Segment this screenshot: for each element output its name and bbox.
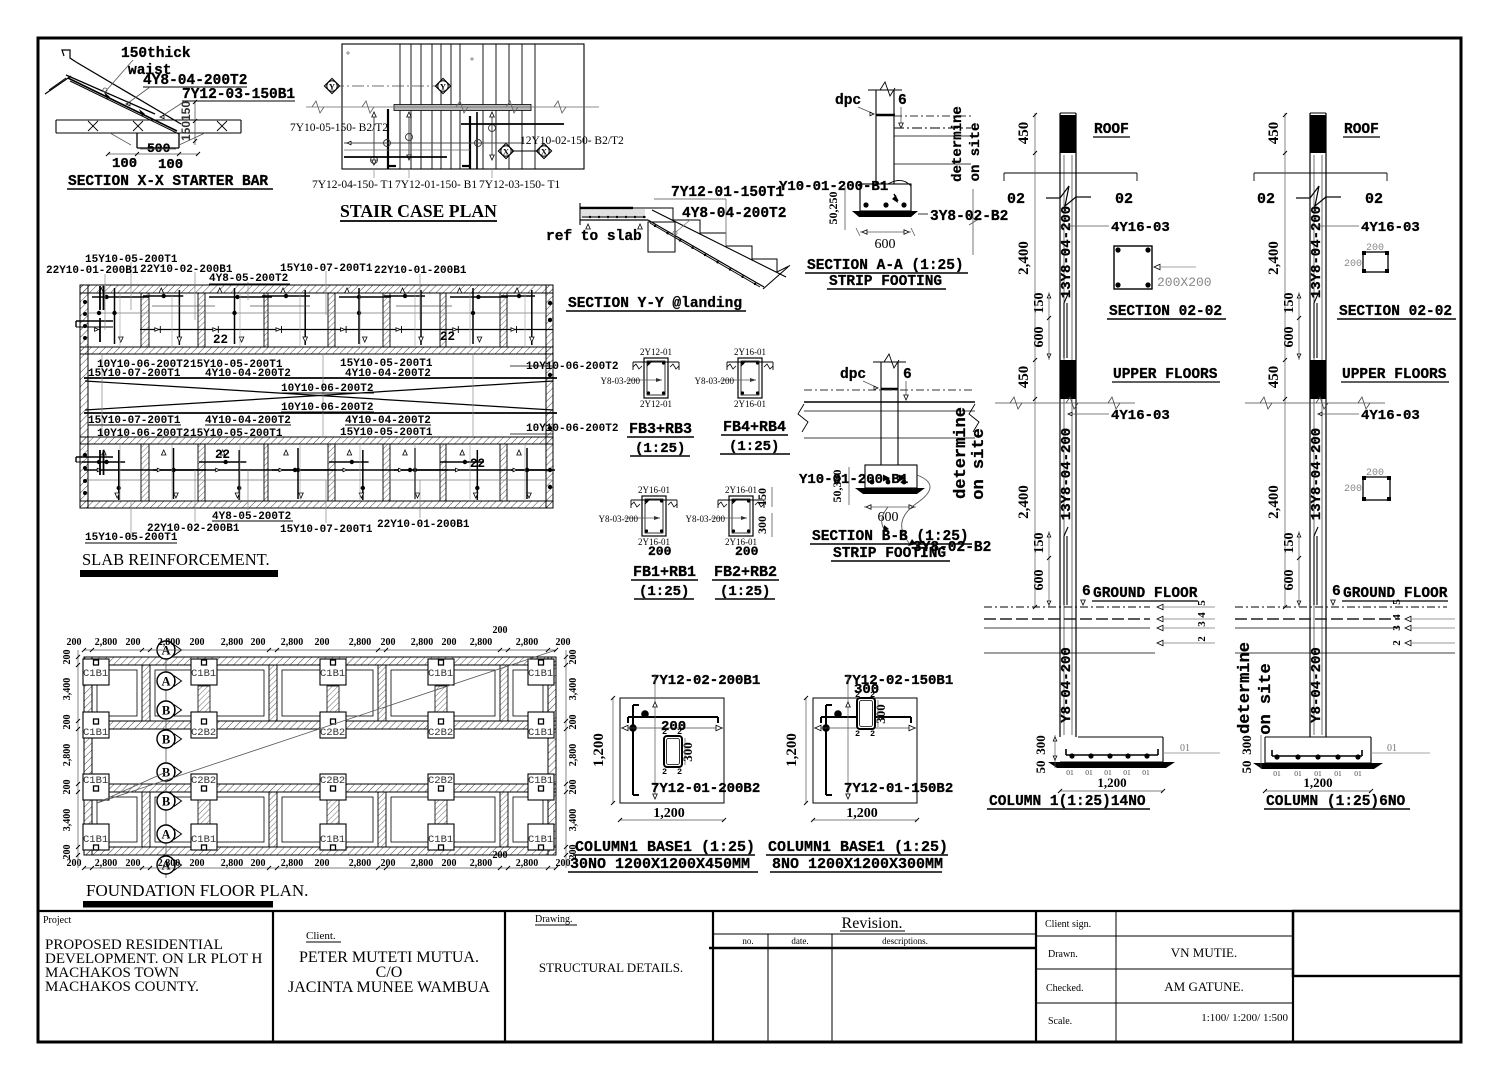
grid marker B [157,792,175,810]
column2 base dims 300/50 [1260,735,1262,769]
svg-text:2,800: 2,800 [158,637,181,648]
extra thin vertical grid lines lower row [119,444,121,501]
column1 blinding [1048,762,1175,768]
svg-text:2Y16-01: 2Y16-01 [725,485,757,495]
column stirrup rect (at top edge) [857,698,875,729]
svg-text:22: 22 [215,448,230,462]
upper cell 3 bars [218,288,223,293]
svg-text:1,200: 1,200 [591,733,607,767]
section 02-02 second square col2 [1344,468,1391,501]
svg-text:2: 2 [662,767,667,777]
svg-text:(1:25): (1:25) [720,584,770,600]
column base C2B2 at (204,787) [191,774,217,800]
upper cell 4 bars [281,288,286,293]
thick cut line left [387,109,389,169]
svg-text:200: 200 [315,637,330,648]
svg-text:01: 01 [1273,769,1281,778]
base dim 1,200 left [612,698,614,803]
svg-text:50: 50 [1033,761,1048,774]
right dimension line [565,650,567,868]
svg-text:2,400: 2,400 [1016,485,1032,519]
svg-text:2: 2 [870,729,875,739]
A-A dim 50,250 [844,186,846,230]
rebar arrow marks in plan [373,112,375,165]
B-B blinding layer [855,488,925,494]
svg-text:COLUMN1 BASE1 (1:25): COLUMN1 BASE1 (1:25) [768,839,948,856]
bottom dimension line [84,867,556,869]
column inner rebar lines [1063,155,1065,735]
svg-text:7Y12-03-150- T1: 7Y12-03-150- T1 [479,179,560,191]
svg-text:C1B1: C1B1 [528,775,553,787]
tiny cross marks [346,52,350,54]
svg-text:SECTION B-B (1:25): SECTION B-B (1:25) [812,529,969,545]
svg-text:200: 200 [62,780,73,795]
svg-text:22: 22 [440,330,455,344]
base outer square [620,698,724,803]
base dim 1,200 left [805,698,807,803]
section cut symbol on shaft [1046,197,1060,199]
svg-text:01: 01 [1066,768,1074,777]
svg-text:450: 450 [1266,122,1282,145]
leader for 4Y8-04-200T2 [676,220,690,232]
svg-text:MACHAKOS COUNTY.: MACHAKOS COUNTY. [45,979,199,995]
foundation internal walls row2 [142,792,150,847]
landing edge second dark line [476,112,478,169]
left dimension line [77,650,79,868]
grid marker B [157,730,175,748]
svg-text:C1B1: C1B1 [83,834,108,846]
svg-text:FOUNDATION FLOOR PLAN.: FOUNDATION FLOOR PLAN. [86,881,308,900]
svg-text:Client sign.: Client sign. [1045,919,1091,930]
svg-text:ROOF: ROOF [1344,122,1379,138]
svg-text:2Y16-01: 2Y16-01 [638,485,670,495]
svg-text:7Y12-04-150- T1: 7Y12-04-150- T1 [312,179,393,191]
ramp lower-left cut line [45,76,71,94]
svg-text:01: 01 [1294,769,1302,778]
svg-text:2,800: 2,800 [95,637,118,648]
middle strip boundary thick lines [84,377,557,379]
svg-text:600: 600 [1282,327,1297,348]
svg-text:B: B [162,766,170,780]
svg-text:FB1+RB1: FB1+RB1 [633,564,696,581]
slab internal walls lower row [141,444,149,501]
svg-text:01: 01 [1085,768,1093,777]
beam detail FB4 outer [738,358,762,398]
column base C1B1 at (541,837) [528,824,554,850]
svg-text:5: 5 [1196,600,1208,606]
stair plan outer rectangle [342,44,584,169]
B-B right break zigzag [969,404,979,432]
soffit line [580,219,648,221]
svg-text:15Y10-07-200T1: 15Y10-07-200T1 [280,263,373,275]
label leader lines from top [104,274,106,330]
heavy bar lower left [344,156,447,158]
sign rows [1036,935,1293,937]
slab reinforcement plan [46,254,618,577]
foundation left edge footing [84,657,92,855]
lower cell 7 bars [460,450,465,455]
svg-text:4: 4 [1391,614,1403,620]
column 2 elevation (6NO) [1236,113,1449,810]
column base C1B1 at (204,837) [191,824,217,850]
lap splice bars lower [1313,536,1315,605]
dimension line 450/2400 [1284,113,1286,607]
svg-text:4Y8-05-200T2: 4Y8-05-200T2 [209,273,288,285]
foundation internal walls row1 [142,665,150,721]
upper cell 1 bars [99,288,104,293]
column1 01 leader [1163,752,1220,754]
svg-text:Revision.: Revision. [842,915,903,932]
svg-text:2,800: 2,800 [349,637,372,648]
base double arrow line [814,727,916,729]
svg-text:150: 150 [1282,293,1297,314]
svg-text:01: 01 [1387,743,1397,754]
svg-text:7Y10-05-150- B2/T2: 7Y10-05-150- B2/T2 [290,122,388,134]
FB4 top flange lines [727,361,773,363]
dimension line 150/600 lower [1048,531,1050,607]
svg-text:(1:25): (1:25) [635,441,685,457]
stair treads right flight [482,44,484,169]
svg-text:1,200: 1,200 [1097,775,1126,790]
section X-X starter bar detail [45,46,295,190]
svg-text:Client.: Client. [306,930,336,942]
svg-text:dpc: dpc [840,367,866,383]
grid marker line [165,644,167,878]
column shaft outline [1059,113,1061,737]
svg-text:STRIP FOOTING: STRIP FOOTING [833,546,946,562]
FB2 dimension 300 [771,513,773,537]
long diagonal reference line [97,650,556,803]
svg-text:200: 200 [1366,468,1384,479]
B-B footing [865,465,917,488]
svg-text:SECTION A-A (1:25): SECTION A-A (1:25) [807,258,964,274]
svg-text:2,800: 2,800 [349,858,372,869]
landing left tick [579,203,581,225]
column base C1B1 at (541,787) [528,774,554,800]
leader for 7Y12-03-150B1 [162,101,185,116]
svg-text:SLAB REINFORCEMENT.: SLAB REINFORCEMENT. [82,550,270,569]
title block top line [38,910,1461,912]
svg-text:13Y8-04-200: 13Y8-04-200 [1309,206,1325,298]
stair label leader lines [373,169,375,178]
svg-text:22: 22 [213,333,228,347]
column base C1B1 at (333,837) [320,824,346,850]
black dots along right edge [548,301,552,305]
dimension line 100 100 [108,153,198,155]
thin line lower [344,149,470,151]
svg-text:7Y12-01-200B2: 7Y12-01-200B2 [651,781,760,797]
svg-text:300: 300 [755,516,769,534]
lap splice bars upper [1063,303,1065,358]
svg-text:13Y8-04-200: 13Y8-04-200 [1309,428,1325,520]
landing slab thick top line [580,207,633,209]
FB2 corner bars [732,499,735,502]
ground line arrows and digits [1157,604,1163,609]
svg-text:300: 300 [873,704,888,724]
svg-text:200: 200 [1366,243,1384,254]
svg-text:13Y8-04-200: 13Y8-04-200 [1059,206,1075,298]
svg-text:C1B1: C1B1 [191,834,216,846]
svg-text:C2B2: C2B2 [428,727,453,739]
svg-text:100: 100 [158,157,183,173]
svg-text:200: 200 [315,858,330,869]
upper floors beam black block [1310,360,1326,399]
svg-text:3,400: 3,400 [568,809,579,832]
svg-text:C1B1: C1B1 [528,727,553,739]
svg-text:150: 150 [1032,533,1047,554]
column1 footing base [1078,736,1163,738]
B-B footing rebar dots [870,480,875,485]
svg-text:200: 200 [568,715,579,730]
svg-text:150: 150 [179,101,193,121]
svg-text:C1B1: C1B1 [320,834,345,846]
FB2 top flange lines [718,499,764,501]
lower cell 6 bars [403,450,408,455]
svg-text:SECTION 02-02: SECTION 02-02 [1109,304,1222,320]
svg-text:STAIR CASE PLAN: STAIR CASE PLAN [340,201,497,221]
FB1 link arrow [624,517,660,519]
svg-text:200: 200 [556,637,571,648]
svg-text:Drawn.: Drawn. [1048,949,1078,960]
svg-text:200: 200 [381,637,396,648]
FB4 hook mark [741,361,746,366]
svg-text:Checked.: Checked. [1046,983,1084,994]
svg-text:22: 22 [470,457,485,471]
svg-text:STRIP FOOTING: STRIP FOOTING [829,274,942,290]
svg-text:C1B1: C1B1 [528,668,553,680]
svg-text:100: 100 [112,156,137,172]
base bar dots [834,710,842,718]
svg-text:4: 4 [1196,612,1208,618]
column base stubs row1 [198,686,210,712]
slab X marks [88,121,98,131]
stair waist ramp outline [76,62,181,124]
svg-text:FB3+RB3: FB3+RB3 [629,421,692,438]
dimension line 150/600 upper [1298,292,1300,360]
B-B curved leader to 3Y8-02-B2 [902,475,930,543]
svg-text:2: 2 [1196,636,1208,642]
base vertical rebar [632,705,634,795]
upper cell 8 bars [515,288,520,293]
svg-text:300: 300 [1239,735,1254,755]
svg-text:3,400: 3,400 [568,678,579,701]
A-A leader with zigzag [972,189,974,255]
stair treads left flight [399,44,401,169]
svg-text:A: A [161,828,170,842]
column base C1B1 at (441,837) [428,824,454,850]
svg-text:(1:25): (1:25) [639,584,689,600]
floor break line below upper floors [995,402,1135,404]
cell1 lower double vertical bars [99,450,101,475]
svg-text:2,800: 2,800 [516,858,539,869]
svg-text:4Y10-04-200T2: 4Y10-04-200T2 [345,368,431,380]
svg-text:50,300: 50,300 [830,470,844,503]
svg-text:300: 300 [1033,735,1048,755]
svg-text:200: 200 [251,637,266,648]
floor break line below upper floors [1245,402,1385,404]
FB4 link arrow [720,379,756,381]
svg-text:3: 3 [1196,621,1208,627]
svg-text:Y8-03-200: Y8-03-200 [599,514,639,524]
base leader vertical with arrows [654,684,656,797]
column base C1B1 at (541,672) [528,659,554,685]
svg-text:4Y16-03: 4Y16-03 [1361,220,1420,236]
base top label leader [654,674,656,682]
svg-text:AM GATUNE.: AM GATUNE. [1164,979,1243,994]
upper cell 2 bars [159,288,164,293]
svg-text:200: 200 [190,858,205,869]
svg-text:200: 200 [493,625,508,636]
rebar arrowheads on waist bar [104,92,110,99]
section 02 cut line [1254,172,1387,174]
svg-text:determine: determine [950,106,966,182]
mid-strip vertical leaders [101,354,103,437]
A-A wall top break [868,89,902,91]
svg-text:200: 200 [1344,484,1362,495]
slab upper-mid hatched band [80,347,553,354]
svg-text:C2B2: C2B2 [191,775,216,787]
svg-text:Y10-01-200-B1: Y10-01-200-B1 [799,472,908,488]
grid marker A [157,825,175,843]
FB3 top flange lines [633,361,679,363]
base top label leader [847,674,849,682]
waist end cut [763,267,788,289]
leader line for 150thick waist [105,60,133,92]
svg-text:5: 5 [1391,599,1403,605]
svg-text:3,400: 3,400 [62,809,73,832]
svg-text:FB4+RB4: FB4+RB4 [723,419,786,436]
long bar line upper row [84,312,553,314]
extra thin vertical grid lines upper row [119,293,121,347]
upper cell 6 bars [400,288,405,293]
svg-text:450: 450 [1266,366,1282,389]
svg-text:on site: on site [1257,663,1276,734]
svg-text:150thick: 150thick [121,46,191,62]
floor slab outline [56,119,241,121]
svg-text:C2B2: C2B2 [320,775,345,787]
svg-text:600: 600 [1032,570,1047,591]
FB3 link arrow [626,379,662,381]
svg-text:200: 200 [735,544,759,559]
svg-text:C1B1: C1B1 [320,668,345,680]
svg-text:200: 200 [62,845,73,860]
dimension line 150/600 upper [1048,292,1050,360]
section B-B strip footing [798,354,991,562]
A-A dpc line [876,114,895,117]
column1 base rebar [1066,754,1158,756]
section 02-02 detail for column 2 upper [1337,243,1456,320]
svg-text:determine: determine [1236,642,1255,734]
svg-text:15Y10-05-200T1: 15Y10-05-200T1 [190,428,283,440]
ground floor slab lines right set [1235,599,1455,653]
waist top diagonal [652,210,786,277]
A-A footing rebar dots [863,202,868,207]
svg-text:C1B1: C1B1 [83,727,108,739]
svg-text:2,800: 2,800 [470,858,493,869]
svg-text:1,200: 1,200 [784,733,800,767]
svg-text:Y: Y [440,82,446,92]
svg-text:X: X [503,147,510,157]
column2 base rebar [1272,755,1362,757]
svg-text:C1B1: C1B1 [428,834,453,846]
svg-text:6: 6 [903,367,912,383]
svg-text:200: 200 [661,719,686,735]
grid marker A [157,672,175,690]
svg-text:C1B1: C1B1 [191,668,216,680]
left edge bracket bars [76,320,113,322]
svg-text:C2B2: C2B2 [191,727,216,739]
column1 base dims 300/50 [1054,735,1056,768]
svg-text:02: 02 [1115,191,1133,208]
roof beam black block [1060,115,1076,153]
svg-text:2: 2 [677,767,682,777]
svg-text:2,800: 2,800 [221,637,244,648]
svg-text:2,800: 2,800 [516,637,539,648]
svg-text:determine: determine [952,407,971,499]
grid marker Y left [324,78,339,93]
svg-text:2,800: 2,800 [281,858,304,869]
column inner rebar lines [1313,155,1315,735]
lower cell 2 bars [161,450,166,455]
FB3 corner bars [647,361,650,364]
svg-text:C1B1: C1B1 [528,834,553,846]
svg-text:13Y8-04-200: 13Y8-04-200 [1059,428,1075,520]
svg-text:10Y10-06-200T2: 10Y10-06-200T2 [526,361,618,373]
column base C1B1 at (96,725) [83,712,109,738]
A-A ground level lines [894,115,971,117]
svg-text:3,400: 3,400 [62,678,73,701]
svg-text:7Y12-02-150B1: 7Y12-02-150B1 [844,673,953,689]
svg-text:15Y10-07-200T1: 15Y10-07-200T1 [280,524,373,536]
svg-text:UPPER FLOORS: UPPER FLOORS [1342,367,1447,383]
svg-text:15Y10-05-200T1: 15Y10-05-200T1 [340,427,433,439]
lower cell 8 bars [517,450,522,455]
column base C1B1 at (541,725) [528,712,554,738]
svg-text:01: 01 [1180,743,1190,754]
svg-text:200: 200 [648,544,672,559]
column2 01 leader [1371,752,1430,754]
svg-text:600: 600 [878,510,899,525]
svg-text:300: 300 [680,742,695,762]
svg-text:200: 200 [568,650,579,665]
svg-text:200: 200 [1344,259,1362,270]
foundation floor plan [62,625,579,908]
cross brace diagonals [85,381,553,410]
svg-text:200: 200 [381,858,396,869]
FB1 corner bars [645,499,648,502]
svg-text:200: 200 [126,637,141,648]
svg-text:450: 450 [1016,122,1032,145]
svg-text:2,800: 2,800 [411,858,434,869]
B-B ground slab lines [804,389,975,391]
column1 base1 detail (30NO) [568,673,760,873]
inner cell outlines row2 [97,797,137,842]
svg-text:date.: date. [791,936,808,946]
svg-text:02: 02 [1257,191,1275,208]
grid marker A [157,856,175,874]
svg-text:Y8-03-200: Y8-03-200 [686,514,726,524]
waist rebar bars (7Y12-03-150B1) [68,78,177,131]
grid marker Y right [435,78,450,93]
lap splice bars lower [1063,536,1065,605]
lower cell 3 bars [220,450,225,455]
svg-text:on site: on site [968,123,984,182]
svg-text:2,800: 2,800 [221,858,244,869]
B-B dpc line [881,388,898,391]
inner cell outlines row1 [97,670,137,716]
slab internal walls upper row [141,293,149,347]
ramp top step notch [62,50,76,62]
